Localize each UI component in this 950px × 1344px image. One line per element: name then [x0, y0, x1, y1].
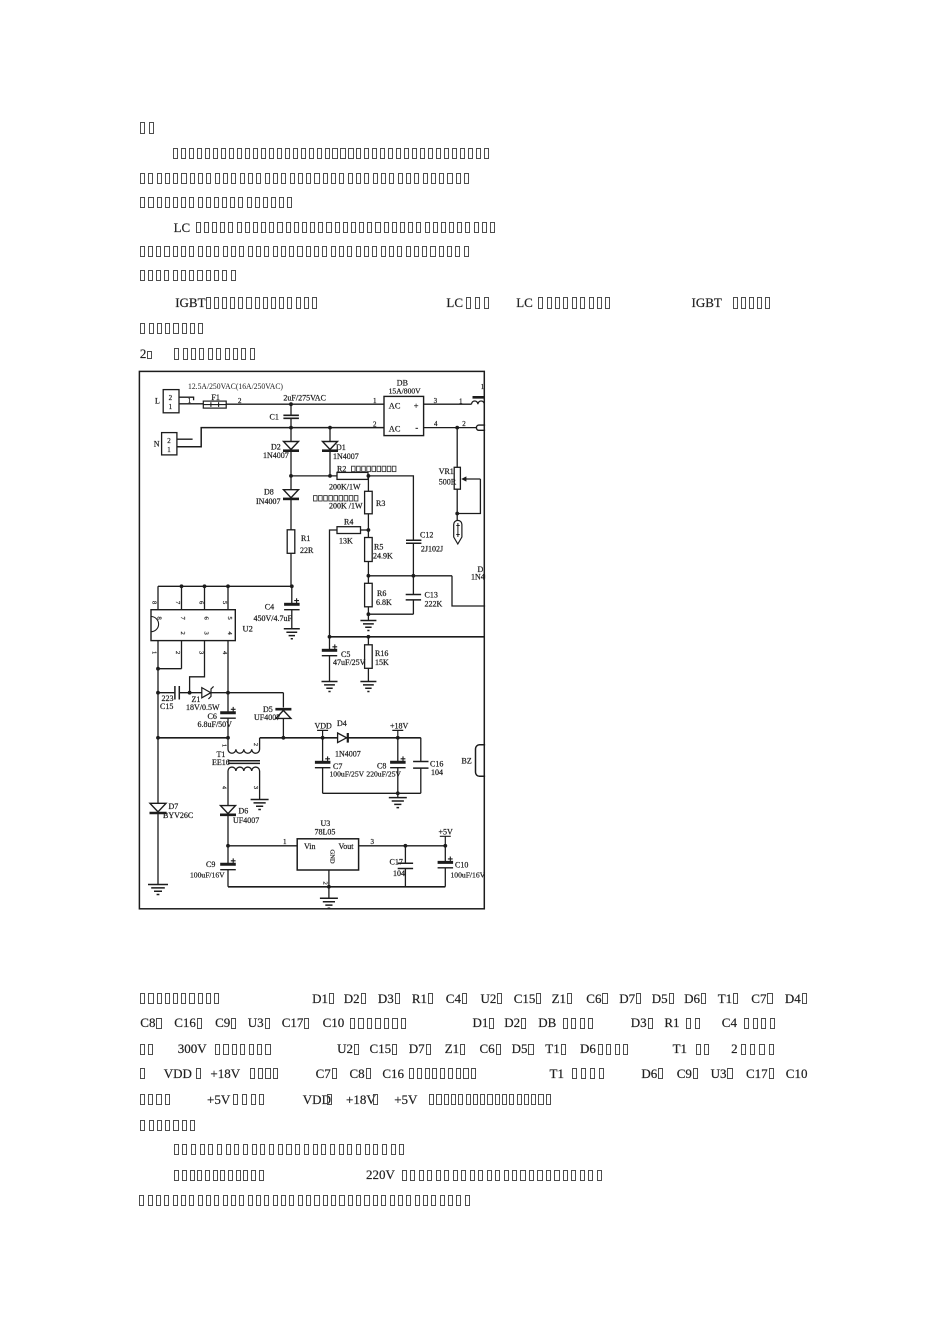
node: [289, 426, 293, 430]
node: [203, 584, 207, 588]
wire: [412, 543, 414, 576]
svg-text:L: L: [155, 396, 160, 405]
svg-text:R3: R3: [376, 499, 385, 508]
wire wiper loop: [457, 479, 480, 514]
svg-text:100uF/25V: 100uF/25V: [330, 770, 365, 779]
diode D4: [338, 733, 348, 743]
svg-text:3: 3: [252, 786, 258, 789]
wire: [290, 419, 292, 428]
pin label 1: [188, 397, 192, 405]
wire DB- to connector: [424, 427, 477, 429]
svg-text:2: 2: [179, 632, 186, 635]
wire VDD rail left: [158, 737, 228, 739]
svg-text:47uF/25V: 47uF/25V: [333, 658, 366, 667]
node: [328, 426, 332, 430]
node: [327, 885, 331, 889]
svg-text:200K /1W: 200K /1W: [329, 502, 363, 511]
svg-text:6: 6: [203, 617, 210, 621]
U2 pin5 stub: [227, 586, 229, 609]
wire: [328, 887, 330, 899]
capacitor C17: [404, 846, 406, 863]
node: [367, 574, 371, 578]
resistor R1: [287, 530, 295, 554]
node: [455, 426, 459, 430]
wire U2 pin1 down: [157, 641, 159, 804]
U2 pin7 stub: [181, 586, 183, 609]
svg-text:1: 1: [167, 446, 171, 454]
wire rectified bus: [291, 475, 337, 477]
wire: [367, 576, 369, 584]
clipped label DX: [478, 565, 484, 574]
svg-text:C13: C13: [425, 590, 438, 599]
svg-text:2: 2: [322, 882, 329, 885]
svg-text:R16: R16: [375, 649, 388, 658]
pin label 3: [198, 651, 205, 654]
ground: [284, 629, 300, 639]
R4 value: [339, 536, 353, 545]
wire: [329, 428, 331, 442]
svg-text:2: 2: [174, 651, 181, 654]
node: [367, 612, 371, 616]
svg-text:D6: D6: [239, 807, 249, 816]
svg-text:15K: 15K: [375, 658, 389, 667]
wire to D5: [228, 692, 283, 694]
wire: [367, 614, 369, 620]
wire to C12: [368, 476, 413, 540]
wire VDD rail right: [260, 737, 421, 739]
T1 label: [217, 750, 226, 759]
capacitor C12: [420, 531, 433, 540]
node: [226, 584, 230, 588]
diode D8: [283, 490, 299, 499]
svg-text:Vin: Vin: [304, 842, 316, 851]
bridge rectifier DB: [397, 379, 408, 388]
svg-text:6.8uF/50V: 6.8uF/50V: [198, 720, 233, 729]
svg-text:U2: U2: [243, 624, 253, 634]
wire: [290, 476, 292, 490]
wire: [412, 600, 414, 614]
node: [328, 635, 332, 639]
svg-text:4: 4: [226, 632, 233, 636]
svg-text:D7: D7: [169, 802, 179, 811]
pin label 1: [151, 651, 158, 654]
pin 4: [434, 420, 438, 428]
svg-text:N: N: [154, 440, 160, 449]
svg-text:500R: 500R: [439, 478, 457, 487]
wire: [329, 656, 331, 682]
node: [443, 844, 447, 848]
svg-text:3: 3: [371, 838, 375, 846]
wire R6 C13 bottom: [368, 613, 413, 615]
resistor R16: [367, 637, 369, 645]
sensor plug: [454, 520, 462, 544]
svg-text:220uF/25V: 220uF/25V: [366, 770, 401, 779]
pin label 2: [462, 420, 466, 428]
svg-text:4: 4: [221, 786, 227, 789]
svg-text:3: 3: [203, 632, 210, 635]
svg-text:UF4007: UF4007: [233, 816, 259, 825]
ground: [360, 682, 376, 692]
capacitor C15: [158, 692, 174, 694]
node: [404, 844, 408, 848]
clipped label 1N40: [471, 573, 489, 582]
svg-text:2J102J: 2J102J: [421, 545, 443, 554]
node: [282, 736, 286, 740]
wire: [456, 428, 458, 468]
svg-text:1: 1: [459, 397, 463, 405]
pin 1: [373, 397, 377, 405]
svg-text:C4: C4: [265, 602, 274, 611]
wire 18V bottom rail: [323, 792, 421, 794]
T1 pin 2: [252, 743, 258, 746]
svg-text:C15: C15: [160, 702, 173, 711]
L pin2 stub: [179, 397, 194, 400]
capacitor C1: [283, 415, 299, 418]
wire U2 top bus: [158, 585, 292, 587]
wire: [397, 793, 399, 797]
pin label 2: [238, 397, 242, 405]
wire L to fuse: [179, 403, 203, 405]
svg-text:8: 8: [151, 601, 158, 604]
R3 value: [329, 502, 363, 511]
wire to clipped diode: [452, 576, 486, 606]
ground: [322, 682, 338, 692]
U2 pin8 stub: [157, 586, 159, 609]
svg-text:18V/0.5W: 18V/0.5W: [186, 703, 220, 712]
svg-text:2: 2: [252, 743, 258, 746]
wire DB+ to coil: [424, 403, 472, 405]
wire sample rail: [330, 636, 485, 638]
potentiometer VR1: [454, 467, 460, 489]
R2 value: [329, 482, 361, 491]
svg-text:104: 104: [431, 768, 443, 777]
svg-text:1: 1: [373, 397, 377, 405]
svg-text:VR1: VR1: [439, 467, 454, 476]
svg-text:+18V: +18V: [390, 722, 409, 731]
svg-text:C12: C12: [420, 531, 433, 540]
svg-text:1N4007: 1N4007: [335, 749, 361, 758]
wire: [367, 607, 369, 614]
svg-text:200K/1W: 200K/1W: [329, 482, 361, 491]
wire: [290, 428, 292, 442]
capacitor C16: [420, 738, 422, 762]
T1 secondary: [228, 767, 260, 806]
fuse rating label: [188, 381, 283, 391]
wire: [290, 500, 292, 530]
wire 5V bottom rail: [228, 886, 445, 888]
wire pin1-pin2: [158, 668, 182, 670]
svg-text:IN4007: IN4007: [256, 497, 280, 506]
power +5V: [439, 827, 454, 836]
svg-text:100uF/16V: 100uF/16V: [451, 870, 486, 879]
wire: [367, 476, 369, 491]
svg-text:22R: 22R: [300, 546, 314, 555]
U2 label: [243, 624, 253, 634]
wire L line to DB: [226, 403, 384, 405]
wire: [361, 529, 369, 531]
svg-text:R6: R6: [377, 589, 386, 598]
wire U2 pin2 down: [181, 641, 183, 669]
svg-text:1: 1: [481, 383, 485, 391]
wire: [367, 562, 369, 576]
node C1 top: [289, 402, 293, 406]
svg-text:+: +: [414, 402, 419, 411]
wire R4 left leg down: [330, 530, 338, 637]
capacitor C13: [406, 595, 421, 600]
C1 value label: [283, 393, 326, 402]
T1 pin 4: [221, 786, 227, 789]
T1 core: [228, 761, 260, 764]
svg-text:GND: GND: [329, 850, 336, 864]
svg-text:1N4007: 1N4007: [333, 452, 359, 461]
ground: [251, 800, 269, 810]
ground: [320, 898, 338, 908]
pin label 4: [221, 651, 228, 655]
node: [412, 574, 416, 578]
zener Z1: [190, 692, 202, 694]
wire: [412, 576, 414, 594]
capacitor C4: [291, 586, 293, 604]
svg-text:Vout: Vout: [339, 842, 355, 851]
connector L: [163, 390, 179, 413]
svg-text:1: 1: [283, 838, 287, 846]
svg-text:7: 7: [174, 601, 181, 605]
op-amp U2: [151, 610, 235, 641]
svg-text:-: -: [415, 423, 418, 433]
capacitor C10: [444, 846, 446, 862]
svg-text:7: 7: [179, 617, 186, 621]
wire U2 pin3 down: [190, 641, 205, 693]
svg-text:8: 8: [156, 617, 163, 620]
capacitor C8: [397, 738, 399, 762]
node: [290, 584, 294, 588]
svg-text:15A/800V: 15A/800V: [389, 387, 422, 396]
U3 GND label: [329, 850, 336, 864]
fuse F1: [211, 393, 219, 402]
pin label 7: [174, 601, 181, 605]
node: [226, 844, 230, 848]
resistor R4: [344, 518, 353, 527]
pin label 8: [151, 601, 158, 604]
connector N: [162, 433, 177, 455]
svg-text:24.9K: 24.9K: [373, 551, 393, 560]
node: [289, 474, 293, 478]
N pin2 stub: [177, 438, 193, 440]
U2 pin6 stub: [204, 586, 206, 609]
svg-text:C17: C17: [390, 858, 403, 867]
pin label 1: [459, 397, 463, 405]
svg-text:BYV26C: BYV26C: [163, 811, 193, 820]
svg-text:1: 1: [169, 403, 173, 411]
svg-text:78L05: 78L05: [315, 828, 336, 837]
capacitor C6: [227, 693, 229, 713]
wire: [290, 404, 292, 415]
node: [226, 736, 230, 740]
svg-text:VDD: VDD: [315, 722, 333, 731]
node: [367, 528, 371, 532]
wire Vout to +5V: [359, 845, 446, 847]
power +18V: [390, 722, 409, 731]
node: [367, 474, 371, 478]
svg-text:D8: D8: [264, 488, 274, 497]
wire: [227, 816, 229, 846]
svg-text:2: 2: [462, 420, 466, 428]
node: [396, 791, 400, 795]
svg-text:C9: C9: [206, 860, 215, 869]
svg-text:100uF/16V: 100uF/16V: [190, 870, 225, 879]
tofu note (high-freq small resistor): [352, 466, 396, 471]
node: [328, 474, 332, 478]
svg-text:1: 1: [221, 744, 227, 747]
T1 value: [212, 758, 230, 767]
svg-text:6: 6: [198, 601, 205, 605]
ground: [389, 798, 407, 808]
svg-text:AC: AC: [389, 402, 401, 411]
node: [455, 512, 459, 516]
node: [188, 691, 192, 695]
wire N line to DB: [177, 428, 384, 447]
pin label 1: [283, 838, 287, 846]
wire: [329, 452, 331, 476]
wire R1 to bus: [290, 553, 292, 586]
svg-text:D4: D4: [337, 719, 347, 728]
svg-text:EE16: EE16: [212, 758, 230, 767]
heating coil (clipped): [472, 397, 485, 404]
pin 2: [373, 420, 377, 428]
svg-text:1: 1: [151, 651, 158, 654]
diode D6: [220, 806, 236, 815]
resistor R6: [365, 583, 373, 607]
node: [321, 736, 325, 740]
ground: [148, 885, 168, 895]
wire to U3 Vin: [228, 845, 297, 847]
svg-text:2uF/275VAC: 2uF/275VAC: [283, 393, 326, 402]
svg-text:R5: R5: [374, 542, 383, 551]
svg-text:R1: R1: [301, 534, 310, 543]
wire divider node: [368, 575, 452, 577]
wire: [291, 610, 293, 629]
svg-text:1N4007: 1N4007: [263, 451, 289, 460]
power VDD: [315, 722, 333, 731]
capacitor C9: [227, 846, 229, 864]
resistor R3: [365, 491, 373, 514]
diode D1: [322, 442, 338, 451]
wire: [367, 514, 369, 538]
svg-text:2: 2: [373, 420, 377, 428]
svg-text:R2: R2: [337, 465, 346, 474]
clipped connector: [476, 425, 487, 430]
U3 ground pin: [328, 870, 330, 887]
pin label 6: [198, 601, 205, 605]
wiper arrow: [461, 476, 480, 481]
svg-text:D1: D1: [336, 443, 346, 452]
svg-text:104: 104: [393, 869, 405, 878]
svg-text:+5V: +5V: [439, 827, 454, 836]
svg-text:5: 5: [221, 601, 228, 604]
node: [156, 667, 160, 671]
ground: [360, 621, 376, 631]
pin label 5: [221, 601, 228, 604]
svg-text:222K: 222K: [425, 599, 443, 608]
tofu note 2 (high-freq small resistor): [314, 496, 358, 501]
node: [180, 584, 184, 588]
wire: [367, 668, 369, 681]
diode D5: [282, 693, 284, 708]
diode D2: [283, 442, 299, 451]
svg-text:1N40: 1N40: [471, 573, 489, 582]
transformer T1: [228, 738, 260, 753]
svg-text:3: 3: [198, 651, 205, 654]
svg-text:C1: C1: [270, 413, 279, 422]
resistor R2: [337, 472, 368, 479]
pin label 3: [371, 838, 375, 846]
clipped label: [481, 383, 485, 391]
svg-text:BZ: BZ: [462, 757, 472, 766]
T1 pin 1: [221, 744, 227, 747]
node: [396, 736, 400, 740]
svg-text:AC: AC: [389, 424, 401, 433]
capacitor C5: [329, 637, 331, 650]
wire: [290, 452, 292, 476]
buzzer BZ: [462, 757, 472, 766]
svg-text:450V/4.7uF: 450V/4.7uF: [254, 614, 293, 623]
node: [367, 635, 371, 639]
node: [226, 691, 230, 695]
svg-text:2: 2: [169, 394, 173, 402]
svg-text:4: 4: [221, 651, 228, 655]
regulator U3: [321, 819, 331, 828]
pin label 2: [322, 882, 329, 885]
schematic frame: [139, 371, 484, 908]
svg-text:13K: 13K: [339, 536, 353, 545]
resistor R5: [365, 538, 373, 562]
diode D7: [150, 803, 167, 813]
node: [156, 691, 160, 695]
node: [156, 736, 160, 740]
capacitor C7: [322, 738, 324, 762]
wire U2 pin4 down: [227, 641, 229, 693]
svg-text:2: 2: [167, 437, 171, 445]
pin label 2: [174, 651, 181, 654]
wire: [157, 814, 159, 885]
svg-text:UF4007: UF4007: [254, 713, 280, 722]
pin 3: [434, 397, 438, 405]
wire: [456, 489, 458, 520]
svg-text:6.8K: 6.8K: [376, 598, 392, 607]
svg-text:5: 5: [226, 617, 233, 620]
svg-text:12.5A/250VAC(16A/250VAC): 12.5A/250VAC(16A/250VAC): [188, 381, 283, 391]
svg-text:C10: C10: [455, 861, 468, 870]
T1 pin 3: [252, 786, 258, 789]
svg-text:R4: R4: [344, 518, 353, 527]
